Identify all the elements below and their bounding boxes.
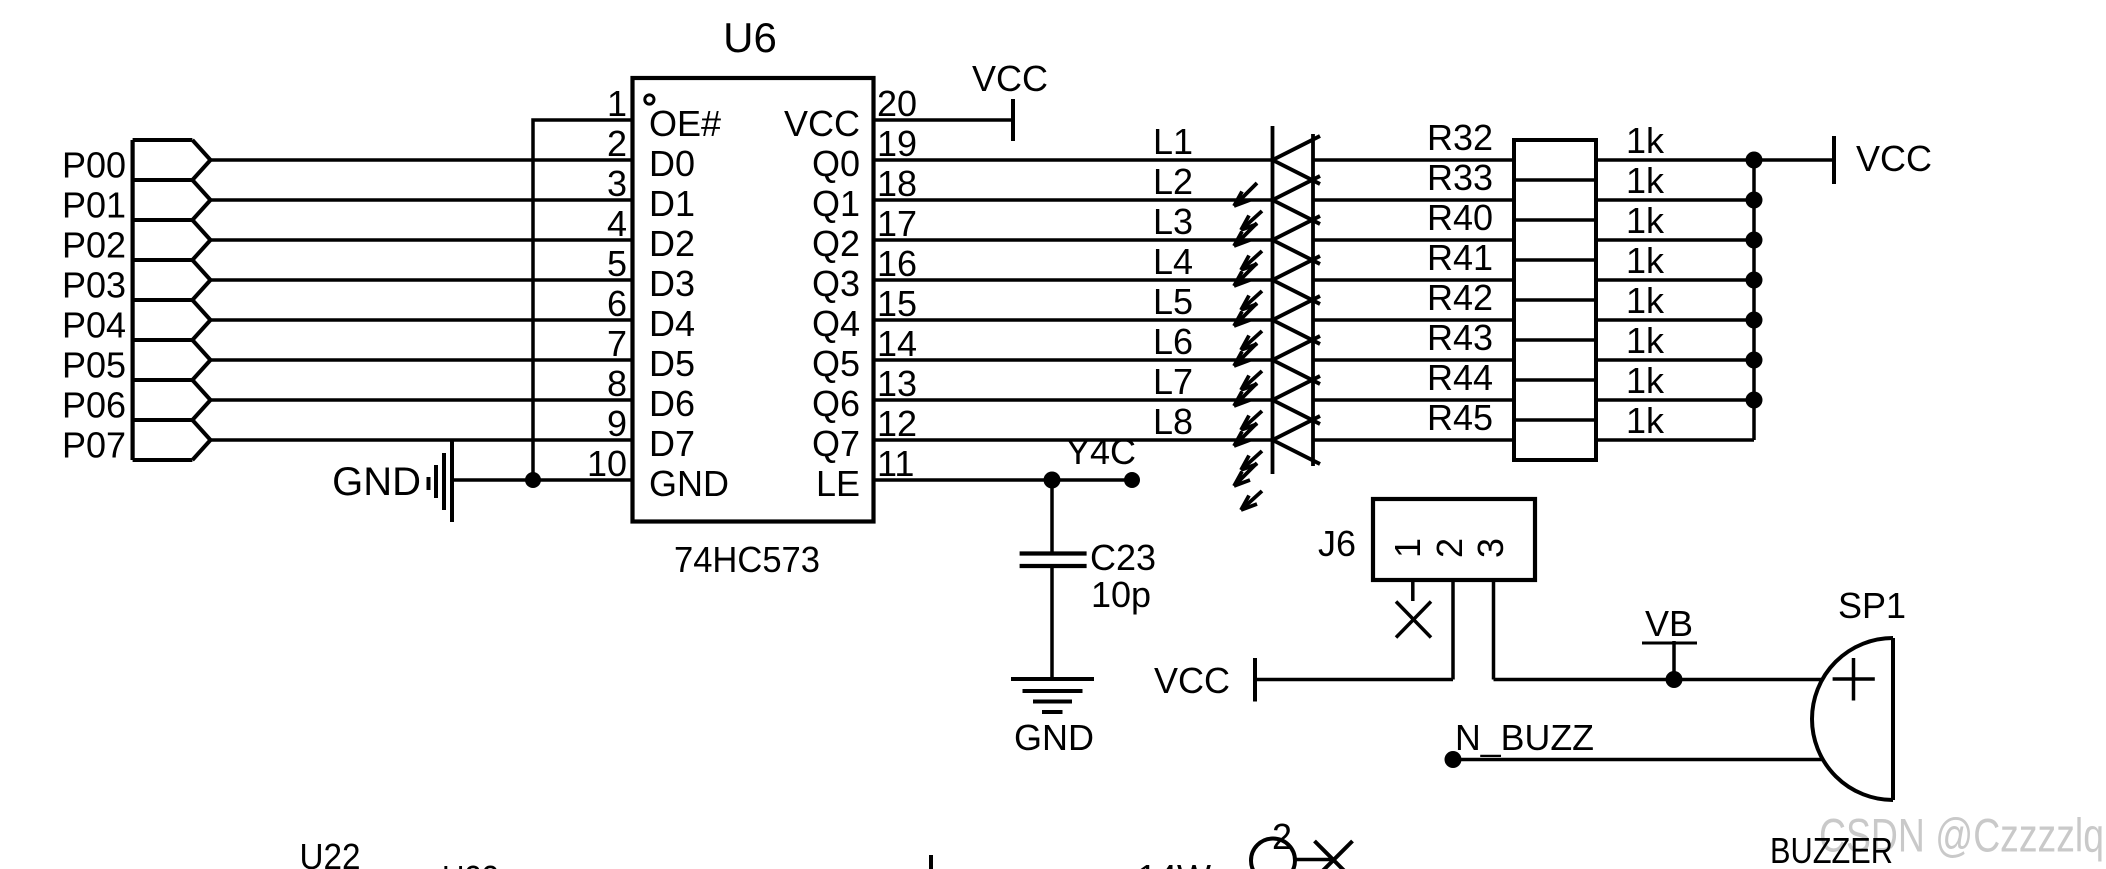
connector P0 bus entry (133, 140, 211, 460)
svg-text:L7: L7 (1153, 361, 1193, 402)
wire C23 to ground (1050, 566, 1054, 679)
LED triangles L1-L8 (1273, 136, 1321, 464)
svg-text:U23: U23 (442, 858, 499, 869)
svg-text:1k: 1k (1626, 400, 1665, 441)
svg-text:L6: L6 (1153, 321, 1193, 362)
svg-text:D0: D0 (649, 143, 695, 184)
svg-text:Q2: Q2 (812, 223, 860, 264)
svg-text:2: 2 (1429, 538, 1470, 558)
svg-text:U6: U6 (723, 14, 777, 61)
svg-text:BUZZER: BUZZER (1770, 830, 1893, 869)
junction VB (1666, 671, 1683, 688)
wire circle to X (1295, 858, 1333, 862)
no-connect X (clipped) (1315, 841, 1353, 869)
svg-text:6: 6 (607, 283, 627, 324)
svg-text:Y4C: Y4C (1066, 431, 1136, 472)
svg-text:18: 18 (877, 163, 917, 204)
svg-text:9: 9 (607, 403, 627, 444)
power VCC (right of resistor bus) (1754, 136, 1834, 184)
svg-text:P03: P03 (62, 265, 126, 306)
svg-text:P06: P06 (62, 385, 126, 426)
svg-text:GND: GND (649, 463, 729, 504)
connector J6 body (1373, 499, 1535, 580)
svg-text:10: 10 (587, 443, 627, 484)
svg-text:Q0: Q0 (812, 143, 860, 184)
svg-text:D5: D5 (649, 343, 695, 384)
junction VCC bus (1746, 352, 1763, 369)
LED emission arrows (1234, 183, 1262, 510)
junction VCC bus (1746, 232, 1763, 249)
wire LE to node Y4C (873, 478, 1132, 482)
junction VCC bus (1746, 152, 1763, 169)
wire pin1 OE# net (533, 120, 633, 480)
ground GND below C23 (1011, 679, 1094, 712)
node N_BUZZ (1445, 751, 1462, 768)
svg-text:VB: VB (1645, 603, 1693, 644)
svg-text:SP1: SP1 (1838, 585, 1906, 626)
svg-text:L4: L4 (1153, 241, 1193, 282)
svg-text:VCC: VCC (972, 58, 1048, 99)
svg-text:GND: GND (332, 460, 421, 504)
svg-text:D1: D1 (649, 183, 695, 224)
svg-text:8: 8 (607, 363, 627, 404)
svg-text:5: 5 (607, 243, 627, 284)
svg-text:1k: 1k (1626, 360, 1665, 401)
ground GND (left, at pin 10) (429, 441, 634, 522)
svg-text:D3: D3 (649, 263, 695, 304)
svg-text:P07: P07 (62, 425, 126, 466)
capacitor C23 (1020, 554, 1087, 567)
junction Y4C (1044, 472, 1061, 489)
svg-text:3: 3 (1470, 538, 1511, 558)
svg-text:10p: 10p (1091, 574, 1151, 615)
wire P00-P07 to D0-D7 (211, 160, 634, 440)
svg-text:R44: R44 (1427, 357, 1493, 398)
junction VCC bus (1746, 192, 1763, 209)
svg-text:17: 17 (877, 203, 917, 244)
svg-text:P05: P05 (62, 345, 126, 386)
svg-text:GND: GND (1014, 717, 1094, 758)
svg-text:R40: R40 (1427, 197, 1493, 238)
svg-text:L3: L3 (1153, 201, 1193, 242)
svg-text:2: 2 (1272, 816, 1292, 857)
svg-text:12: 12 (877, 403, 917, 444)
svg-text:7: 7 (607, 323, 627, 364)
junction VCC bus (1746, 272, 1763, 289)
svg-text:J6: J6 (1318, 523, 1356, 564)
svg-text:11: 11 (877, 443, 914, 484)
wire stub (clipped at bottom) (929, 855, 933, 869)
svg-text:3: 3 (607, 163, 627, 204)
svg-text:Q5: Q5 (812, 343, 860, 384)
svg-text:R32: R32 (1427, 117, 1493, 158)
wire resistors to VCC bus (1596, 160, 1754, 440)
svg-text:LE: LE (816, 463, 860, 504)
transistor symbol circle (clipped) (1251, 839, 1295, 869)
junction VCC bus (1746, 312, 1763, 329)
svg-text:P04: P04 (62, 305, 126, 346)
svg-text:1k: 1k (1626, 160, 1665, 201)
resistor network R32,R33,R40-R45 body (1514, 140, 1596, 460)
junction VCC bus (1746, 392, 1763, 409)
svg-text:2: 2 (607, 123, 627, 164)
svg-text:Q6: Q6 (812, 383, 860, 424)
svg-text:D2: D2 (649, 223, 695, 264)
svg-text:D6: D6 (649, 383, 695, 424)
junction on GND net (525, 472, 541, 488)
svg-text:19: 19 (877, 123, 917, 164)
svg-text:1k: 1k (1626, 120, 1665, 161)
svg-text:L1: L1 (1153, 121, 1193, 162)
svg-text:P00: P00 (62, 145, 126, 186)
svg-text:1k: 1k (1626, 200, 1665, 241)
svg-text:13: 13 (877, 363, 917, 404)
no-connect X on J6 pin 1 (1396, 602, 1431, 638)
power VCC at pin 20 (873, 99, 1013, 141)
wire J6 pin 3 to buzzer (VB net) (1494, 678, 1824, 682)
svg-text:OE#: OE# (649, 103, 721, 144)
J6 pin stubs (1413, 580, 1494, 680)
svg-text:D7: D7 (649, 423, 695, 464)
svg-text:1k: 1k (1626, 280, 1665, 321)
svg-text:15: 15 (877, 283, 917, 324)
svg-text:Q3: Q3 (812, 263, 860, 304)
svg-text:20: 20 (877, 83, 917, 124)
op-amp U6 74HC573 latch body (633, 78, 874, 522)
svg-text:R33: R33 (1427, 157, 1493, 198)
svg-text:14: 14 (877, 323, 917, 364)
LED array anode bus (right bar) (1311, 134, 1315, 466)
wire N_BUZZ to buzzer (1453, 758, 1823, 762)
svg-text:74HC573: 74HC573 (674, 539, 820, 580)
svg-text:R42: R42 (1427, 277, 1493, 318)
svg-text:VCC: VCC (784, 103, 860, 144)
svg-text:L5: L5 (1153, 281, 1193, 322)
svg-text:VCC: VCC (1154, 660, 1230, 701)
buzzer SP1 body (1812, 638, 1893, 800)
wire Q0-Q7 to LEDs L1-L8 (873, 160, 1273, 440)
svg-text:1k: 1k (1626, 240, 1665, 281)
svg-text:14W: 14W (1137, 857, 1211, 869)
svg-text:L2: L2 (1153, 161, 1193, 202)
buzzer plus polarity mark (1833, 658, 1875, 701)
svg-text:U22: U22 (300, 836, 361, 869)
svg-text:VCC: VCC (1856, 138, 1932, 179)
svg-text:R41: R41 (1427, 237, 1493, 278)
LED array L1-L8 cathode bus (left bar) (1271, 126, 1275, 474)
svg-text:4: 4 (607, 203, 627, 244)
svg-text:P02: P02 (62, 225, 126, 266)
svg-text:R43: R43 (1427, 317, 1493, 358)
svg-text:Q4: Q4 (812, 303, 860, 344)
svg-text:Q1: Q1 (812, 183, 860, 224)
svg-text:N_BUZZ: N_BUZZ (1455, 717, 1594, 758)
svg-text:1: 1 (607, 83, 627, 124)
svg-text:16: 16 (877, 243, 917, 284)
svg-text:1: 1 (1387, 538, 1428, 558)
svg-text:C23: C23 (1090, 537, 1156, 578)
svg-text:1k: 1k (1626, 320, 1665, 361)
wire LEDs to resistors (1313, 160, 1514, 440)
svg-text:R45: R45 (1427, 397, 1493, 438)
svg-text:L8: L8 (1153, 401, 1193, 442)
wire Y4C to C23 (1050, 480, 1054, 553)
OE# inversion bubble (645, 95, 654, 104)
svg-text:Q7: Q7 (812, 423, 860, 464)
svg-text:D4: D4 (649, 303, 695, 344)
svg-text:P01: P01 (62, 185, 126, 226)
